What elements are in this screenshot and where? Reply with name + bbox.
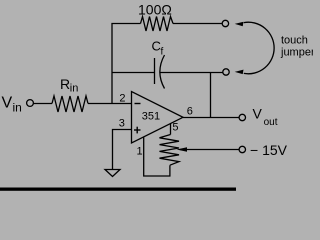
svg-text:in: in (13, 101, 22, 115)
svg-text:V: V (2, 95, 13, 112)
touch jumper arc (244, 22, 274, 74)
svg-text:R: R (60, 76, 70, 92)
resistor R_f 100ohm zigzag (141, 17, 174, 32)
arrowhead bottom jumper (235, 70, 244, 75)
svg-text:jumper: jumper (280, 47, 313, 59)
minus sign pin 2 (135, 103, 141, 105)
resistor offset-null pot zigzag (160, 135, 180, 166)
capacitor Cf left plate (154, 58, 156, 84)
svg-text:− 15V: − 15V (250, 142, 288, 158)
svg-text:in: in (70, 82, 79, 94)
terminal circle bottom jumper (223, 69, 229, 75)
black bar bottom (0, 188, 236, 191)
arrowhead top jumper (235, 22, 244, 27)
terminal circle -15V (239, 146, 245, 152)
wire capacitor left lead (112, 72, 155, 74)
op-amp U1 triangle (132, 92, 184, 144)
svg-text:3: 3 (119, 118, 125, 130)
svg-text:6: 6 (187, 106, 193, 118)
svg-text:C: C (152, 39, 161, 54)
wire input to pin 2 (88, 103, 132, 105)
svg-text:out: out (264, 117, 278, 128)
wire junction vertical to output (210, 73, 212, 118)
wire top feedback left segment (112, 24, 141, 104)
svg-text:2: 2 (119, 93, 125, 105)
svg-text:V: V (253, 106, 263, 122)
resistor R_in zigzag (52, 96, 88, 112)
wire output (183, 117, 239, 119)
svg-text:f: f (161, 47, 164, 58)
terminal circle V_out (239, 114, 245, 120)
terminal circle V_in (27, 100, 34, 107)
svg-text:1: 1 (137, 146, 143, 158)
svg-text:touch: touch (281, 34, 308, 46)
wire capacitor right lead (161, 72, 223, 74)
wire pin 3 stub (113, 130, 132, 170)
wire -15V (180, 149, 239, 151)
svg-text:100Ω: 100Ω (138, 2, 172, 18)
terminal circle top jumper (222, 20, 228, 26)
plus sign pin 3 (134, 127, 141, 134)
svg-text:5: 5 (172, 122, 178, 134)
wire top feedback right segment (173, 23, 222, 25)
wire input left segment (34, 103, 53, 105)
ground (105, 170, 120, 177)
arrowhead -15V wiper (177, 147, 188, 151)
svg-text:351: 351 (142, 111, 160, 123)
wire pin 5 lead (170, 124, 172, 135)
capacitor Cf right curved plate (160, 55, 165, 89)
wire pot bottom to pin 1 (144, 137, 170, 176)
